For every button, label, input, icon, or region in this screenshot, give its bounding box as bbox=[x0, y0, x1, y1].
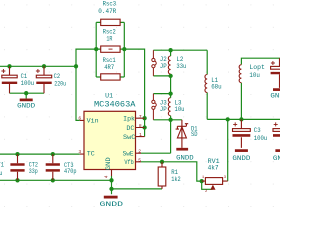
svg-text:TC: TC bbox=[87, 151, 95, 158]
svg-text:Vin: Vin bbox=[87, 118, 99, 125]
junction RV1 pin1 / wiper bbox=[200, 179, 204, 183]
wire Lopt branch and top-right output wire bbox=[241, 58, 280, 119]
svg-text:4: 4 bbox=[103, 175, 109, 178]
junction output / RV1 rail bbox=[226, 117, 230, 121]
resistor Rsc2 bbox=[101, 46, 120, 52]
resistor Rsc1 bbox=[101, 74, 120, 80]
junction L2 top bbox=[168, 48, 172, 52]
svg-text:GNDD: GNDD bbox=[270, 93, 280, 100]
svg-text:5: 5 bbox=[138, 157, 141, 163]
svg-text:SD: SD bbox=[191, 131, 198, 138]
junction C1C2 ground bbox=[24, 91, 28, 95]
svg-text:68u: 68u bbox=[211, 83, 222, 90]
ground upper-right cut at edge bbox=[273, 88, 286, 91]
svg-text:SwE: SwE bbox=[123, 151, 134, 158]
svg-text:Lopt: Lopt bbox=[249, 64, 265, 71]
junction CT3 bottom bbox=[51, 178, 55, 182]
svg-text:33p: 33p bbox=[29, 168, 38, 175]
wire Rsc right rail bbox=[120, 22, 124, 77]
svg-text:JP: JP bbox=[160, 63, 167, 70]
capacitor upper-right cut at edge bbox=[271, 58, 289, 88]
svg-text:GNDD: GNDD bbox=[232, 155, 250, 162]
wire J2/L2 bottom node bbox=[153, 75, 170, 77]
svg-text:4R7: 4R7 bbox=[104, 64, 114, 71]
svg-text:GNDD: GNDD bbox=[273, 155, 280, 162]
wire CT bottom from left edge to pin4 node bbox=[0, 179, 112, 181]
svg-text:1: 1 bbox=[139, 132, 142, 138]
junction pin4 ground node bbox=[109, 187, 113, 191]
wire RV1 wiper return bbox=[202, 181, 213, 189]
svg-text:GNDD: GNDD bbox=[17, 103, 35, 110]
diode D1 schottky bbox=[176, 120, 189, 148]
junction C1 top bbox=[7, 64, 11, 68]
svg-text:GNDD: GNDD bbox=[176, 154, 194, 161]
svg-text:Ipk: Ipk bbox=[123, 116, 135, 123]
svg-text:GND: GND bbox=[105, 157, 112, 170]
svg-text:L2: L2 bbox=[176, 56, 183, 63]
svg-text:6: 6 bbox=[78, 116, 81, 122]
capacitor CT3 bbox=[46, 154, 60, 180]
wire Rsc left rail bbox=[96, 22, 101, 77]
junction CT2 bottom bbox=[15, 178, 19, 182]
svg-text:1k2: 1k2 bbox=[171, 176, 181, 183]
ground GNDD under C3 bbox=[235, 149, 248, 152]
svg-text:0.47R: 0.47R bbox=[98, 8, 116, 15]
svg-text:DC: DC bbox=[126, 125, 134, 132]
wire Rsc to pins 7 8 1 rail bbox=[124, 49, 144, 137]
svg-text:33u: 33u bbox=[0, 170, 3, 177]
svg-text:220u: 220u bbox=[54, 80, 66, 87]
IC U1 MC34063A body bbox=[84, 111, 136, 169]
wire J3/L3 bottom node to D1 bbox=[153, 119, 182, 121]
junction R1 top / Vfb bbox=[160, 160, 164, 164]
svg-text:1R: 1R bbox=[106, 35, 112, 42]
wire output down to RV1 right pin bbox=[227, 119, 229, 181]
wire J3/L3 top node bbox=[153, 93, 170, 95]
wire stubs L3 bbox=[170, 94, 172, 120]
resistor Rsc3 bbox=[101, 19, 120, 25]
svg-text:SwC: SwC bbox=[123, 134, 136, 141]
svg-text:GNDD: GNDD bbox=[100, 201, 124, 208]
svg-text:33u: 33u bbox=[176, 63, 186, 70]
svg-text:100u: 100u bbox=[254, 135, 268, 142]
U1 pin stubs bbox=[80, 118, 145, 176]
svg-text:Rsc3: Rsc3 bbox=[103, 1, 117, 8]
wire C1 C2 bottom to ground bbox=[10, 93, 45, 98]
inductor L2 bbox=[168, 56, 170, 74]
ground GNDD under pin 4 bbox=[104, 196, 118, 199]
junction L2 bottom bbox=[168, 74, 172, 78]
wire R1 bottom to ground node bbox=[112, 188, 163, 190]
wire output horizontal to right edge bbox=[207, 118, 280, 120]
svg-text:C1: C1 bbox=[21, 73, 28, 80]
capacitor lower-right cut at edge bbox=[273, 122, 291, 135]
junction L3 bottom / D1 node bbox=[168, 118, 172, 122]
capacitor C3 bbox=[233, 119, 251, 147]
ground GNDD under D1 bbox=[176, 148, 188, 151]
junction L3 top bbox=[168, 91, 172, 95]
jumper J3 bbox=[152, 94, 157, 120]
svg-text:U1: U1 bbox=[105, 92, 113, 99]
wire CT top from left edge to TC pin bbox=[0, 153, 80, 155]
wire pin4 ground drop bbox=[111, 176, 113, 194]
svg-text:JP: JP bbox=[160, 106, 167, 113]
junction CT2 top bbox=[15, 152, 19, 156]
svg-text:10u: 10u bbox=[249, 72, 260, 79]
svg-text:MC34063A: MC34063A bbox=[94, 102, 136, 110]
RV1 wiper arrow bbox=[210, 185, 215, 190]
wire Vfb to RV1 pin 1 bbox=[141, 162, 202, 181]
svg-text:10u: 10u bbox=[175, 106, 185, 113]
junction output / Lopt-C3 bbox=[239, 117, 243, 121]
svg-text:100u: 100u bbox=[21, 80, 35, 87]
svg-text:3: 3 bbox=[78, 149, 81, 155]
junction pin7 Ipk bbox=[142, 116, 146, 120]
svg-text:Vfb: Vfb bbox=[124, 159, 134, 166]
wire L1 branch vertical bbox=[206, 50, 208, 119]
capacitor CT2 bbox=[10, 154, 24, 180]
ground lower-right cut at edge bbox=[275, 149, 288, 152]
wire Vin riser to Rsc network and down to pin 6 bbox=[76, 49, 96, 120]
svg-text:2: 2 bbox=[138, 149, 141, 155]
junction Rsc left rail bbox=[94, 47, 98, 51]
svg-text:470p: 470p bbox=[64, 168, 77, 175]
svg-text:8: 8 bbox=[139, 123, 142, 129]
svg-text:C3: C3 bbox=[254, 127, 261, 134]
junction Rsc right rail bbox=[122, 47, 126, 51]
inductor L1 bbox=[205, 75, 207, 93]
svg-text:R1: R1 bbox=[171, 169, 178, 176]
inductor Lopt bbox=[239, 65, 241, 83]
wire L2 bottom to J3 top link bbox=[170, 76, 172, 94]
potentiometer RV1 bbox=[202, 178, 228, 185]
junction pin4 / CT return bbox=[109, 178, 113, 182]
wire stubs L2 bbox=[170, 50, 172, 76]
svg-text:C2: C2 bbox=[54, 73, 61, 80]
junction CT3 top bbox=[51, 152, 55, 156]
svg-text:Rsc1: Rsc1 bbox=[103, 57, 116, 64]
inductor L3 bbox=[168, 98, 170, 116]
ground GNDD under C1 C2 bbox=[20, 98, 33, 100]
junction Vin rail bbox=[74, 64, 78, 68]
resistor R1 bbox=[158, 162, 166, 189]
svg-text:CT1: CT1 bbox=[0, 161, 4, 168]
svg-text:4k7: 4k7 bbox=[208, 164, 219, 171]
wire SwE riser and SwE pin wire bbox=[141, 120, 171, 153]
svg-text:7: 7 bbox=[139, 114, 142, 120]
capacitor C2 bbox=[36, 66, 52, 93]
capacitor C1 bbox=[1, 66, 17, 93]
wire J2/L2 top node bbox=[153, 49, 207, 51]
junction C2 top bbox=[42, 64, 46, 68]
junction pin8 DC bbox=[142, 125, 146, 129]
wire Vin horizontal from left edge bbox=[0, 65, 76, 67]
jumper J2 bbox=[152, 50, 157, 76]
